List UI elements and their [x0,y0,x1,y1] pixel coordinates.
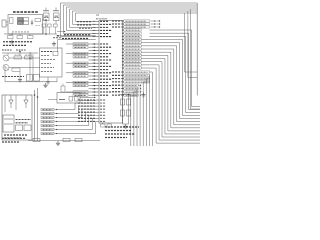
wire bus C2 down [146,79,150,146]
wire AREF right drop [191,9,201,109]
wire bus D1 [55,106,96,113]
wire u5 v2 [37,88,39,141]
wire RESET name [58,35,96,37]
text bottom left [2,137,26,139]
ground chains [125,124,127,126]
wire bus C4 down [138,85,140,146]
junction dots [11,33,129,101]
U4 text [41,51,53,53]
wire bus D5 [55,118,96,129]
net label D4 [41,124,54,127]
connector J1 [2,20,6,27]
wire q2 join [9,67,40,69]
cap C4 [48,24,52,27]
text row y76 [2,76,24,78]
note line2 [105,130,131,132]
wire bus A0 top loop [61,3,198,37]
U5 text rows [4,134,27,136]
wire bus A3 top loop [70,9,198,27]
U2 inner [45,15,49,17]
wire GND right drop [188,11,197,78]
resistor R12 [75,139,82,142]
diode pair D1 [10,18,14,24]
transistor Q1 [3,55,9,61]
wire bus B12 fan [141,68,200,143]
relay K3 [24,125,31,131]
cap chain R6 [128,95,130,125]
wire VCC arrow [57,31,64,33]
wire bus B7 fan [141,52,200,128]
label row2 [3,44,26,46]
resistor R13 [61,86,65,92]
box U4 [40,48,63,77]
wire psu out [43,19,47,21]
wire bus C0 down [150,72,153,146]
wire bus C1 down [148,75,150,146]
regulator U2 [45,8,47,12]
wire bus B6 fan [141,49,200,125]
wire bus B3 fan [141,40,200,116]
svg-text:AT90S8535: AT90S8535 [96,17,108,20]
cap chain R5 [122,95,124,125]
wire bus A1 top loop [64,5,198,34]
net labels right column [124,20,150,96]
wire osc in [48,99,57,101]
gnd bottom mid [57,141,59,143]
crystal Y1 module box [57,93,80,104]
wire bus B8 fan [141,55,200,131]
net label D2 [41,116,54,119]
wire u5 v1 [34,90,36,141]
wire bus D6 [55,121,96,133]
wire bus B4 fan [141,43,200,119]
relay K2 [16,125,23,131]
gnd upper box [45,83,47,85]
transistor Q3 [10,95,12,100]
ground psu [11,40,13,42]
sheet border right [196,3,198,96]
wire bus B1 fan [150,33,201,109]
wire bus B9 fan [141,59,200,134]
wire bus A2 top loop [67,7,198,30]
gnd arrows right [151,20,161,28]
wire bus D3 [55,112,96,121]
box U5 [2,95,32,140]
vert x20 [29,52,31,80]
net label D6 [41,132,54,135]
cap C5 [54,24,58,27]
transformer T1 [18,18,24,25]
wire bus C7 down [131,95,139,146]
rail GND mid [2,52,38,54]
net names on bus rows [77,21,91,23]
wire VCC right drop [185,13,198,72]
gnd fanB [143,93,145,95]
transistor Q4 [25,95,27,100]
U1 left pins [78,21,112,121]
wire xtal b [80,99,96,101]
wire bottom rail [28,140,100,142]
transistor Q2 [3,65,9,71]
box edge y82 [5,81,57,83]
wire q1 join [9,57,40,59]
wire bus B2 fan [150,36,201,112]
regulator U3 [55,8,57,12]
text inside psu [12,31,30,33]
U1 right pins [112,21,124,95]
resistor R3 [14,56,22,59]
net labels left column [66,43,96,97]
fuse F1 [35,19,41,22]
net label D3 [41,120,54,123]
wire chain top [119,94,131,96]
gnd q2 [19,78,21,80]
wire bus B5 fan [141,46,200,122]
resistor R10 [33,139,40,142]
rail +5V [4,33,57,35]
caps pair upper [27,75,33,82]
wire bus C3 down [143,82,150,146]
wire inner1 [4,95,6,112]
power supply label [13,11,38,13]
resistor R5b [12,68,20,71]
resistor R11 [63,138,70,141]
resistor R4 [25,56,33,59]
wire bus C6 down [134,92,138,146]
net label D1 [41,112,54,115]
wire bus D2 [55,109,96,117]
wire bus B10 fan [141,62,200,137]
U6 text [16,119,32,121]
net label D5 [41,128,54,131]
note line3 [105,133,135,135]
wire bus A5 top loop [76,13,198,21]
wire bus C5 down [137,89,138,147]
note line1 [105,126,139,128]
label 12v [2,49,12,51]
cap C3 [42,24,46,27]
U1 bottom parts [101,124,106,127]
opto U6 box [3,115,14,132]
net label D0 [41,108,54,111]
note line4 [105,137,127,139]
diode D4 [17,36,23,39]
wire bus D4 [55,115,96,125]
gnd left bus [53,42,55,44]
wire bus B0 fan [150,30,201,107]
power supply box [8,15,43,35]
wire XTAL name [58,39,96,41]
cap C1 [31,20,33,26]
label row1 [3,41,32,43]
diode D3 [8,36,14,39]
wire xtal a [80,96,96,98]
wire net to U4 [57,40,59,52]
cap C6 [28,36,34,39]
wire bus B11 fan [141,65,200,140]
IC U1 box [99,21,123,124]
ground U4 [47,80,49,82]
wire bus D0 [55,103,96,109]
wire bus A4 top loop [73,11,198,24]
